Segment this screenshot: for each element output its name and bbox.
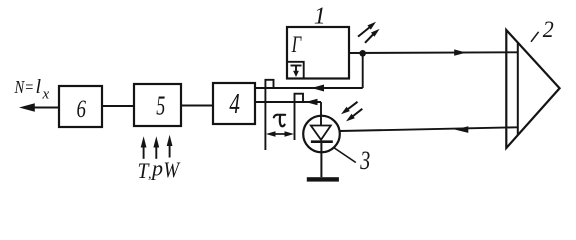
svg-text:l: l: [36, 76, 42, 98]
svg-text:Γ: Γ: [291, 32, 302, 57]
svg-text:N=: N=: [14, 77, 34, 97]
svg-text:x: x: [42, 87, 50, 103]
svg-text:2: 2: [543, 17, 554, 42]
svg-text:6: 6: [77, 96, 87, 123]
svg-text:5: 5: [156, 91, 165, 121]
svg-text:1: 1: [314, 4, 326, 30]
svg-text:W: W: [164, 157, 181, 182]
svg-text:4: 4: [229, 88, 240, 120]
svg-text:p: p: [150, 156, 163, 181]
svg-text:3: 3: [360, 146, 371, 175]
svg-text:,: ,: [148, 167, 152, 182]
